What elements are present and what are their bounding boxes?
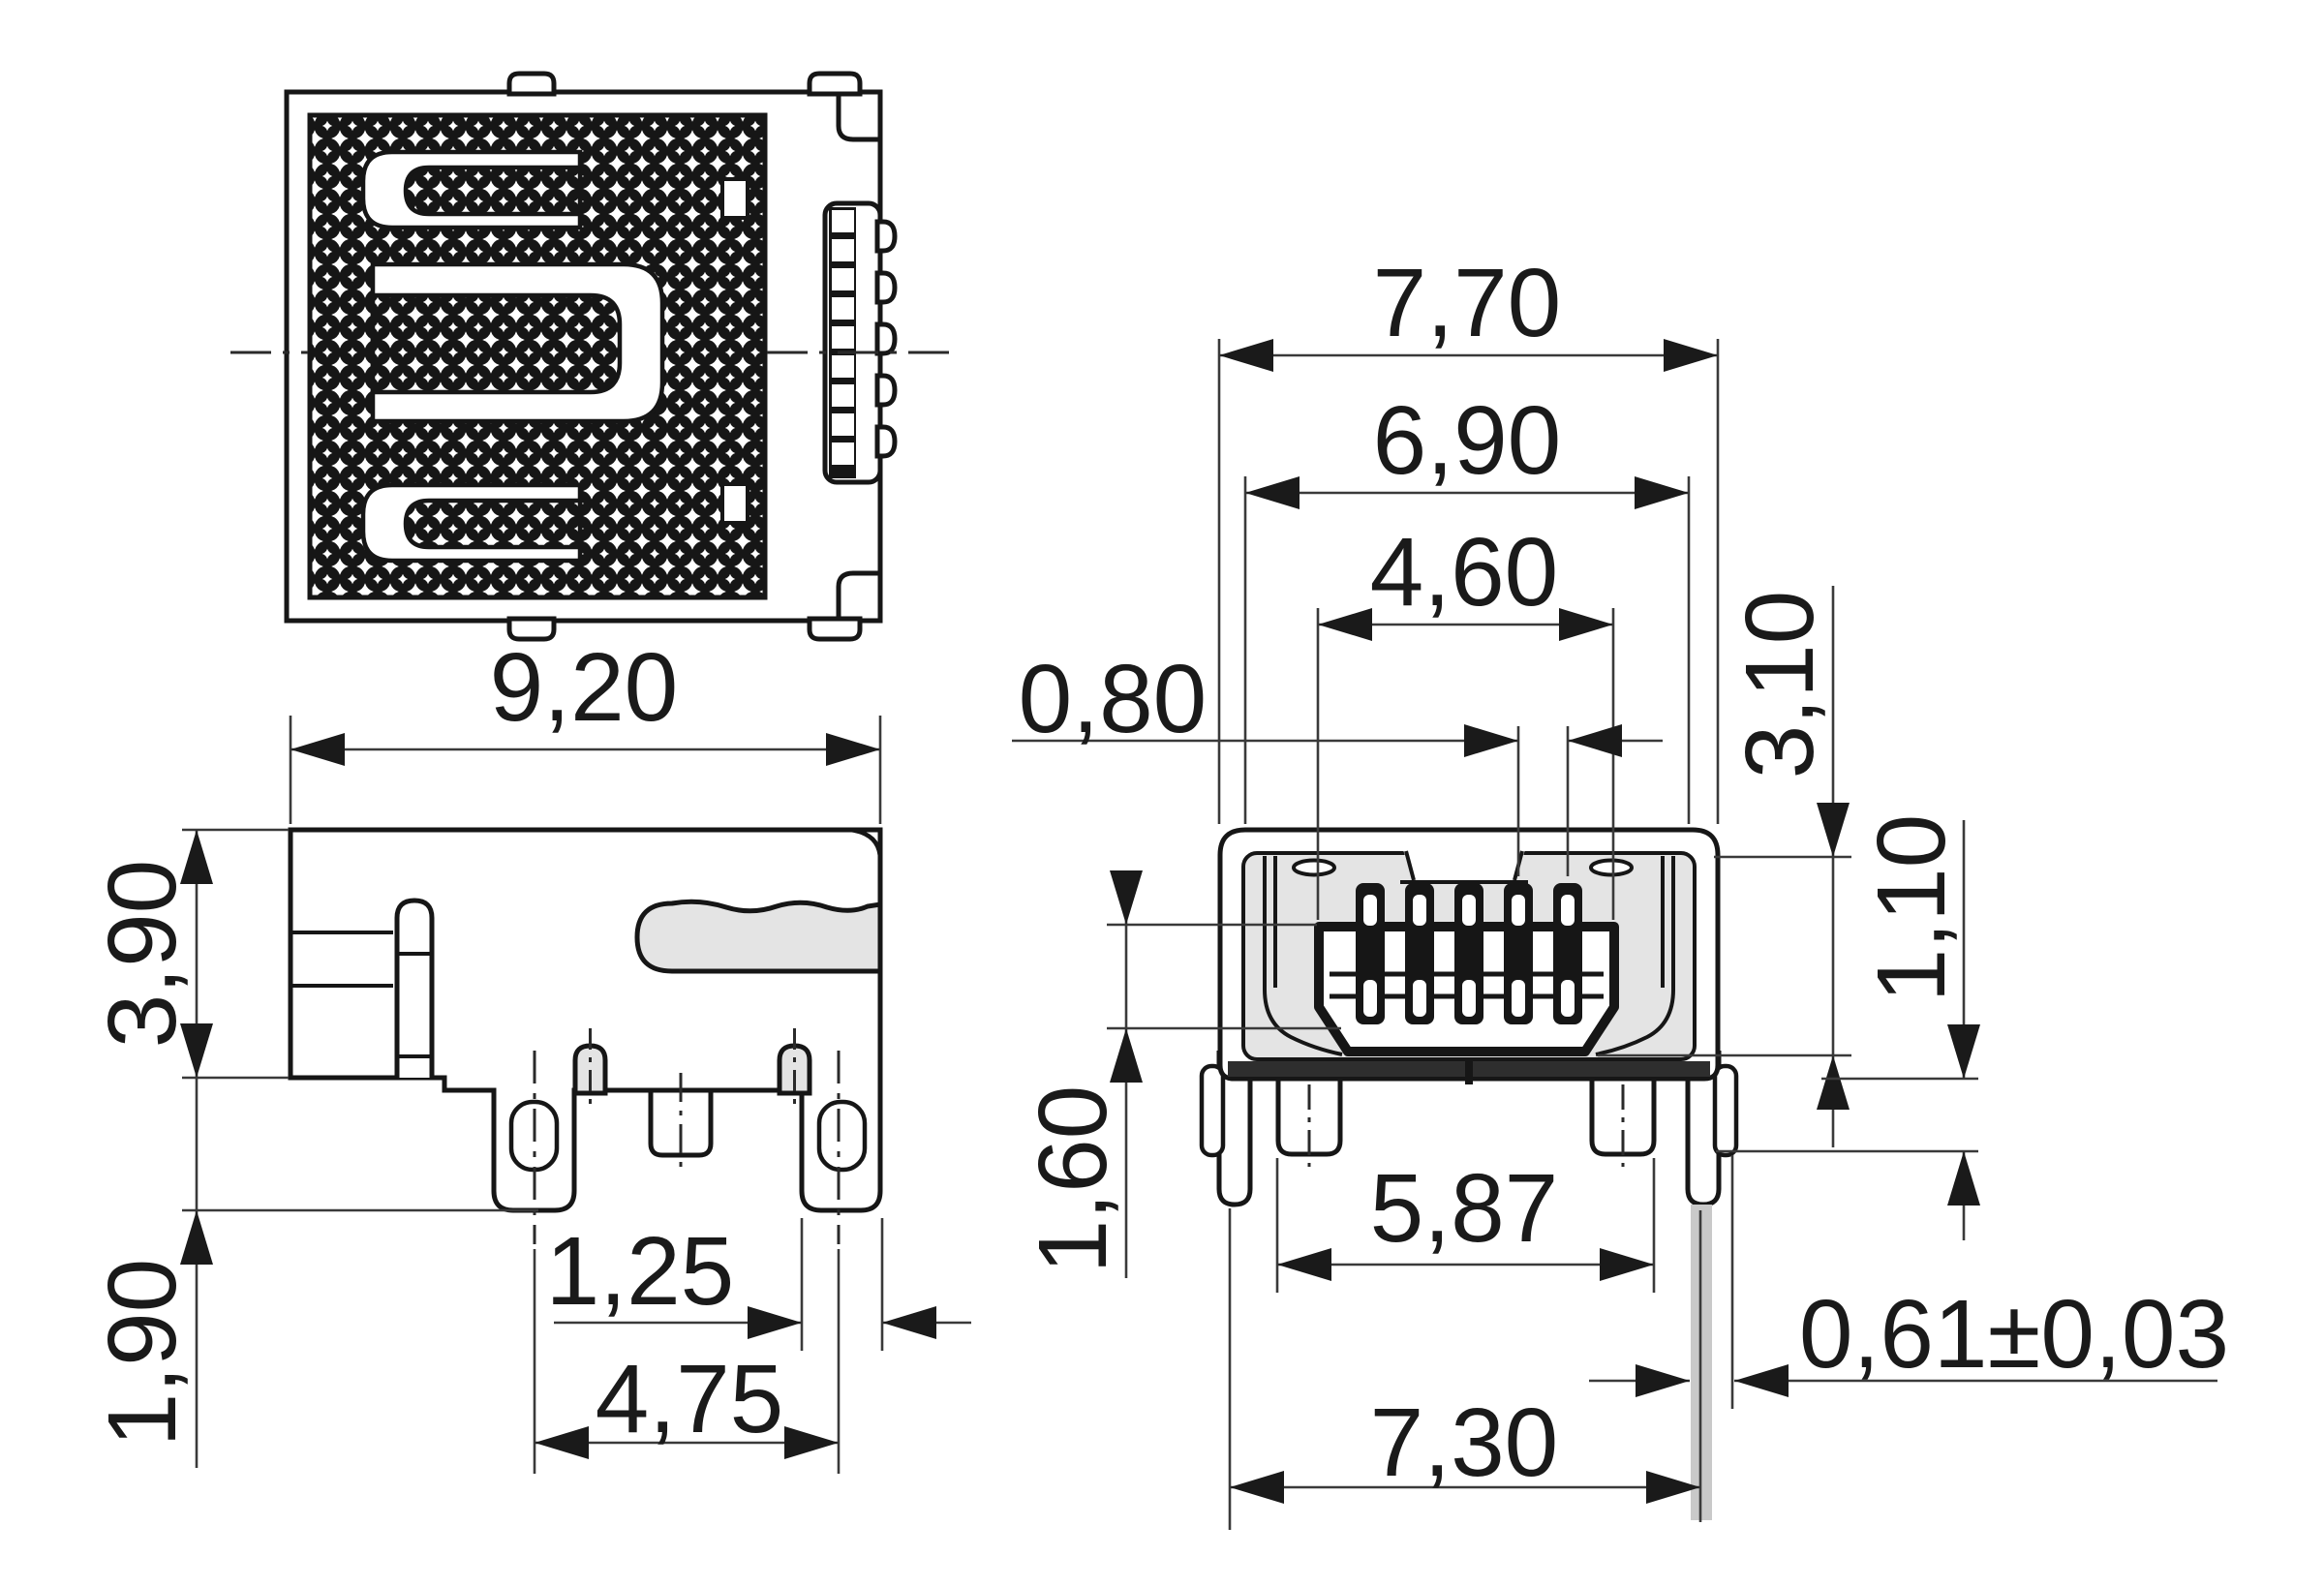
svg-text:9,20: 9,20 [490,633,679,742]
svg-text:5,87: 5,87 [1370,1154,1559,1263]
front view: bottom standoff legs [1278,1079,1654,1167]
svg-text:1,60: 1,60 [1019,1085,1127,1274]
front view: dark folded bottom edge of shell [1228,1061,1710,1084]
svg-text:4,60: 4,60 [1370,518,1559,626]
svg-text:0,61±0,03: 0,61±0,03 [1799,1280,2229,1389]
dimension 4,75 leg spacing [535,1249,839,1474]
front view: metal shell outline [1220,830,1718,1079]
front view: side crease folds [1265,856,1673,1054]
svg-text:7,70: 7,70 [1373,249,1562,357]
svg-text:3,10: 3,10 [1726,591,1834,779]
front view: extension lines below legs [1230,1155,1732,1530]
dimension 6,90 inner width [1245,386,1689,824]
top view: upper spring latch cutout [363,152,580,228]
front view: spot weld ovals [1294,861,1632,875]
dimension 1,10 shell lip height [1716,814,1980,1240]
svg-text:6,90: 6,90 [1373,386,1562,495]
side view: leg center lines [535,1051,839,1244]
dimension 0,61 solder tail thickness [1589,1280,2229,1397]
front view: top center notch [1400,846,1528,882]
top view: horizontal center line [230,351,957,354]
front view: left side bump [1202,1066,1223,1155]
svg-text:0,80: 0,80 [1019,645,1208,753]
front view: contact rail lines [1330,974,1604,996]
top view: middle spring latch cutout [373,264,662,421]
dimension 5,87 standoff span [1277,1154,1654,1293]
side view: laminated shield layer lines [290,932,393,986]
side view: rear pin bumps behind body [575,1028,810,1106]
side view: middle solder pin [651,1088,711,1155]
dimension 1,60 socket height [1019,870,1341,1278]
svg-text:1,25: 1,25 [546,1217,735,1326]
top view: contact comb block [825,203,880,482]
dimension 3,10 depth to socket floor [1598,586,1851,1147]
front view: right side bump [1715,1066,1736,1155]
top view: small rectangular windows [722,179,748,523]
svg-text:1,90: 1,90 [88,1259,197,1448]
top view: five solder pin bumps right edge [877,222,895,456]
dimension 4,60 socket width [1318,518,1613,920]
side view: folded corner top right [850,830,880,860]
dimension 0,80 pin pitch [1012,645,1663,876]
svg-text:7,30: 7,30 [1370,1389,1559,1497]
top view: mounting tabs on top and bottom edges [509,74,860,639]
dimension 1,90 leg length [88,1078,538,1468]
top view: connector body outline [287,92,880,621]
svg-text:3,90: 3,90 [88,860,197,1049]
front view: gray solder tail extension below right leg [1691,1205,1712,1520]
front view: five contact pins [1356,883,1582,1024]
dimension 1,25 leg width [546,1217,971,1351]
side view: spring contact bar (gray) [637,901,880,971]
svg-text:1,10: 1,10 [1857,814,1966,1003]
front view: shell inner wall and gray face [1243,853,1695,1059]
dimension 7,30 leg span [1230,1389,1700,1504]
side view: leg slots [511,1102,865,1170]
front view: left flange leg [1219,1051,1250,1205]
dimension 7,70 shell width [1219,249,1718,824]
top view: lower spring latch cutout [363,485,580,561]
front view: mini-B socket opening [1319,927,1614,1052]
dimension 9,20 top width of side view [290,633,880,824]
dimension 3,90 body height [88,830,289,1078]
front view: right flange leg [1688,1051,1719,1205]
svg-text:4,75: 4,75 [596,1345,784,1453]
side view: front latch post [397,900,432,1078]
top view: folded corner tabs right side [839,94,880,619]
side view: body outline with board-lock legs [290,830,880,1210]
top view: knurled (cross-hatched) metal surface [310,115,765,597]
